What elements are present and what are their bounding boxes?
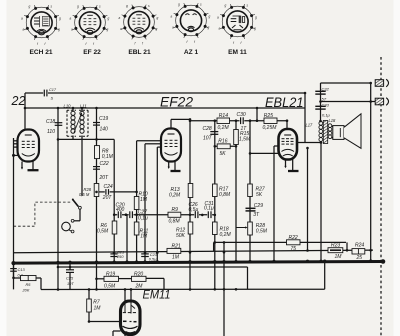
svg-text:R16: R16 — [218, 139, 227, 145]
svg-text:C18: C18 — [46, 119, 55, 125]
svg-text:g: g — [29, 5, 31, 9]
svg-text:20T: 20T — [102, 195, 113, 201]
svg-text:R7: R7 — [93, 299, 100, 305]
svg-text:g: g — [225, 4, 227, 8]
svg-text:C30: C30 — [237, 112, 246, 118]
svg-text:g: g — [77, 5, 79, 9]
svg-text:0,8M: 0,8M — [219, 192, 231, 198]
svg-text:0,5μ: 0,5μ — [149, 257, 157, 262]
svg-text:25: 25 — [356, 255, 363, 261]
svg-text:R24: R24 — [355, 243, 364, 249]
svg-text:0,2M: 0,2M — [218, 125, 230, 131]
svg-text:a: a — [171, 15, 173, 19]
svg-text:5K: 5K — [256, 192, 263, 198]
svg-text:g: g — [208, 26, 210, 30]
svg-text:0,5M: 0,5M — [104, 283, 116, 289]
svg-text:R25: R25 — [264, 113, 273, 119]
svg-text:g: g — [254, 27, 256, 31]
svg-text:L18: L18 — [329, 118, 337, 123]
svg-text:250: 250 — [116, 254, 124, 259]
svg-text:C25: C25 — [66, 275, 74, 280]
svg-text:AZ 1: AZ 1 — [184, 49, 199, 56]
svg-text:EBL 21: EBL 21 — [128, 49, 151, 56]
svg-text:0,5M: 0,5M — [97, 228, 109, 234]
svg-text:a: a — [21, 17, 23, 21]
svg-text:L10: L10 — [64, 103, 72, 108]
svg-text:C29: C29 — [254, 203, 263, 209]
svg-text:a: a — [172, 26, 174, 30]
svg-text:ECH 21: ECH 21 — [29, 49, 52, 56]
svg-text:g: g — [58, 28, 60, 32]
svg-text:140: 140 — [100, 127, 109, 133]
svg-text:EM 11: EM 11 — [228, 49, 247, 56]
svg-text:0,25M: 0,25M — [263, 125, 278, 131]
svg-text:g: g — [107, 28, 109, 32]
svg-text:R14: R14 — [219, 113, 228, 119]
svg-text:1M: 1M — [94, 306, 102, 312]
svg-text:R23: R23 — [331, 243, 340, 249]
svg-text:1,5M: 1,5M — [239, 137, 251, 143]
svg-text:g: g — [209, 15, 211, 19]
svg-text:0,5μ: 0,5μ — [189, 207, 199, 213]
svg-text:R9: R9 — [172, 207, 179, 213]
svg-text:C13: C13 — [18, 267, 26, 272]
svg-text:a: a — [219, 27, 221, 31]
svg-text:R19: R19 — [106, 271, 115, 277]
svg-text:R5: R5 — [26, 282, 32, 287]
svg-text:C24: C24 — [104, 184, 113, 190]
svg-text:110: 110 — [47, 129, 55, 135]
svg-text:75: 75 — [291, 246, 297, 252]
svg-text:1M: 1M — [335, 254, 343, 260]
svg-text:C33: C33 — [322, 103, 330, 108]
svg-text:400: 400 — [116, 207, 125, 213]
svg-text:a: a — [70, 17, 72, 21]
svg-text:50K: 50K — [176, 233, 186, 239]
svg-text:10T: 10T — [203, 136, 213, 142]
svg-text:5K: 5K — [220, 151, 227, 157]
svg-text:20T: 20T — [99, 175, 110, 181]
svg-text:g: g — [108, 17, 110, 21]
svg-text:a: a — [120, 27, 122, 31]
svg-text:g: g — [59, 17, 61, 21]
svg-text:C32: C32 — [322, 86, 330, 91]
svg-text:3T: 3T — [253, 212, 260, 218]
svg-text:g: g — [156, 27, 158, 31]
svg-text:C28: C28 — [203, 126, 212, 132]
svg-text:g: g — [126, 4, 128, 8]
svg-text:R20: R20 — [134, 271, 143, 277]
svg-text:EF 22: EF 22 — [83, 49, 101, 56]
svg-text:0,5M: 0,5M — [256, 228, 268, 234]
svg-text:C17: C17 — [49, 88, 57, 92]
svg-text:C22: C22 — [100, 161, 109, 167]
svg-text:g: g — [178, 3, 180, 7]
svg-text:a: a — [71, 28, 73, 32]
svg-text:R21: R21 — [172, 243, 181, 249]
svg-text:1M: 1M — [140, 234, 148, 240]
svg-text:g: g — [157, 16, 159, 20]
svg-text:R22: R22 — [289, 235, 298, 241]
svg-text:5T: 5T — [322, 96, 327, 101]
svg-text:2M: 2M — [135, 283, 144, 289]
svg-text:0,8M: 0,8M — [169, 218, 181, 224]
svg-text:0,2M: 0,2M — [220, 232, 232, 238]
svg-text:a: a — [217, 16, 219, 20]
svg-text:0,5 M: 0,5 M — [79, 192, 90, 197]
svg-text:1M: 1M — [172, 255, 180, 261]
svg-text:EF22: EF22 — [160, 95, 193, 110]
svg-text:a: a — [119, 16, 121, 20]
svg-text:L17: L17 — [306, 122, 314, 127]
svg-text:0,1M: 0,1M — [102, 154, 114, 160]
svg-text:a: a — [23, 28, 25, 32]
svg-text:20K: 20K — [22, 287, 30, 292]
svg-text:0,1μ: 0,1μ — [204, 205, 214, 211]
svg-text:C19: C19 — [99, 116, 108, 122]
svg-text:1M: 1M — [140, 197, 148, 203]
svg-text:10T: 10T — [67, 281, 74, 286]
svg-text:0,1μ: 0,1μ — [138, 215, 148, 221]
svg-text:0,1μ: 0,1μ — [322, 112, 331, 117]
svg-text:g: g — [255, 16, 257, 20]
svg-text:22: 22 — [11, 94, 26, 108]
svg-text:0,2M: 0,2M — [169, 193, 181, 199]
